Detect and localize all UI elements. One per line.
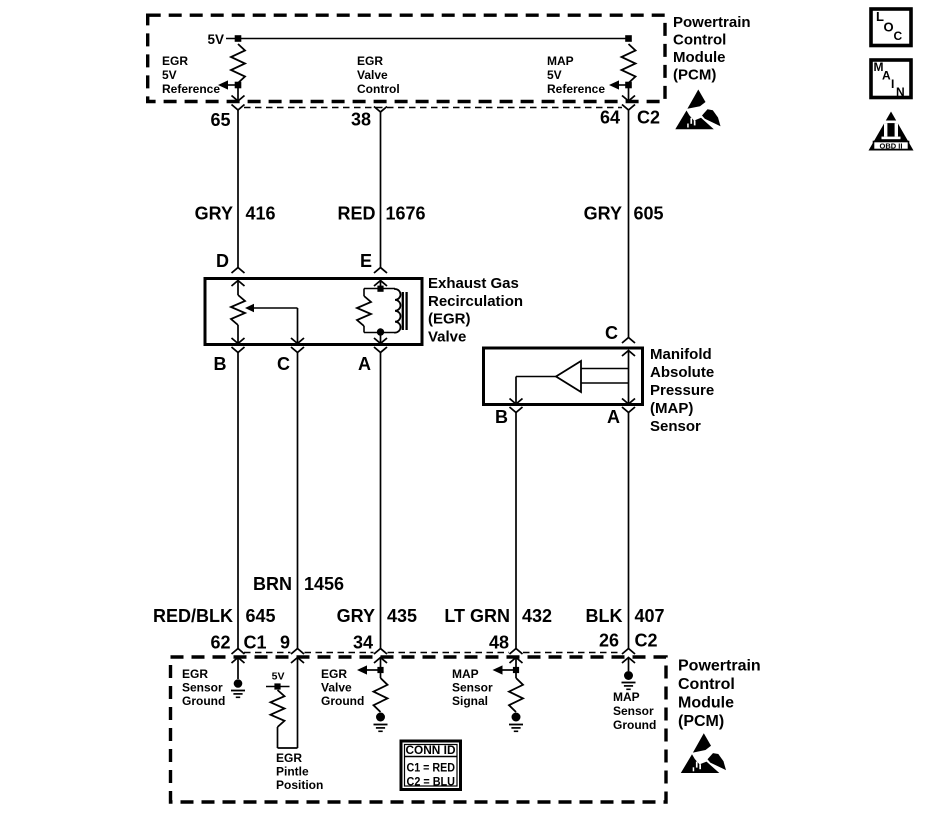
connector arrow pin 48 (inside) xyxy=(510,658,523,664)
svg-text:B: B xyxy=(214,354,227,374)
svg-text:MAP: MAP xyxy=(613,690,640,704)
svg-text:Valve: Valve xyxy=(357,68,388,82)
connector arrow pin 65 xyxy=(232,96,245,102)
svg-text:EGR: EGR xyxy=(357,54,383,68)
svg-text:Ground: Ground xyxy=(182,694,225,708)
wire 5V rail tick xyxy=(266,686,290,688)
svg-text:C: C xyxy=(605,323,618,343)
svg-text:C: C xyxy=(894,29,903,43)
svg-text:Control: Control xyxy=(678,676,735,693)
icon MAIN box xyxy=(871,60,911,98)
icon OBD II triangle xyxy=(869,112,914,151)
svg-text:605: 605 xyxy=(634,204,664,224)
svg-text:Manifold: Manifold xyxy=(650,346,712,363)
svg-text:435: 435 xyxy=(387,606,417,626)
svg-text:Sensor: Sensor xyxy=(452,681,493,695)
resistor MAP 5V reference pull-up xyxy=(622,44,636,83)
resistor MAP sensor signal xyxy=(509,678,523,712)
svg-text:RED: RED xyxy=(337,204,375,224)
svg-text:Control: Control xyxy=(357,82,400,96)
svg-text:EGR: EGR xyxy=(162,54,188,68)
EGR solenoid node (bottom) xyxy=(377,328,384,335)
svg-text:416: 416 xyxy=(246,204,276,224)
connector fork pin 65 xyxy=(232,105,245,111)
connector forks bottom row xyxy=(232,649,245,655)
svg-text:Module: Module xyxy=(673,49,726,66)
svg-text:5V: 5V xyxy=(547,68,562,82)
svg-text:CONN ID: CONN ID xyxy=(406,745,456,757)
node junction pin 34 xyxy=(377,667,383,673)
wire BLK 407 (MAP A to pin 26) xyxy=(628,413,630,649)
svg-text:48: 48 xyxy=(489,633,509,653)
connector arrow pin B inside MAP xyxy=(510,399,523,405)
svg-text:(EGR): (EGR) xyxy=(428,311,471,328)
svg-text:O: O xyxy=(884,20,894,35)
svg-text:9: 9 xyxy=(280,633,290,653)
svg-text:Sensor: Sensor xyxy=(182,681,223,695)
node junction pin 48 xyxy=(513,667,519,673)
connector fork pin B (MAP) xyxy=(510,407,523,413)
wire solenoid bottom xyxy=(364,332,395,334)
svg-text:BRN: BRN xyxy=(253,574,292,594)
svg-text:26: 26 xyxy=(599,631,619,651)
wire amp input bottom xyxy=(581,382,629,384)
svg-text:C1 = RED: C1 = RED xyxy=(407,763,456,775)
svg-text:MAP: MAP xyxy=(547,54,574,68)
resistor EGR solenoid winding resistance xyxy=(357,296,371,326)
svg-text:EGR: EGR xyxy=(276,751,302,765)
svg-text:Position: Position xyxy=(276,778,323,792)
svg-text:Reference: Reference xyxy=(547,82,605,96)
connector arrow pin A (inside) xyxy=(374,338,387,344)
wire arrow branch pin 48 xyxy=(502,669,517,671)
inductor EGR solenoid coil xyxy=(395,289,401,333)
svg-text:(MAP): (MAP) xyxy=(650,400,693,417)
svg-text:Ground: Ground xyxy=(321,694,364,708)
connector arrow pin B (inside) xyxy=(232,338,245,344)
connector arrow pin 62 (inside) xyxy=(232,658,245,664)
svg-text:432: 432 xyxy=(522,606,552,626)
arrow to MAP 5V Reference label xyxy=(609,80,619,89)
node junction below EGR resistor xyxy=(235,82,242,89)
ESD sensitive device symbol (bottom PCM) xyxy=(681,733,726,773)
wire solenoid top xyxy=(364,288,395,290)
ESD sensitive device symbol (top PCM) xyxy=(675,90,720,130)
connector arrow pin C inside MAP xyxy=(622,351,635,357)
ground MAP sensor signal xyxy=(512,713,521,722)
svg-text:Valve: Valve xyxy=(428,329,466,346)
wire amp output to pin B xyxy=(516,376,556,378)
wire RED 1676 (pin 38 to EGR E) xyxy=(380,112,382,268)
node junction 5V/MAP resistor xyxy=(625,35,632,42)
svg-text:1456: 1456 xyxy=(304,574,344,594)
svg-text:Pressure: Pressure xyxy=(650,382,714,399)
connector inline dashed line (bottom) xyxy=(244,652,291,654)
EGR valve box xyxy=(205,279,422,345)
svg-text:I: I xyxy=(891,77,894,91)
svg-text:Reference: Reference xyxy=(162,82,220,96)
svg-text:C1: C1 xyxy=(244,633,267,653)
svg-text:5V: 5V xyxy=(272,671,285,683)
svg-text:Exhaust Gas: Exhaust Gas xyxy=(428,275,519,292)
svg-text:C2: C2 xyxy=(635,631,658,651)
wire LT GRN 432 (MAP B to pin 48) xyxy=(515,413,517,649)
svg-text:Module: Module xyxy=(678,695,734,712)
ground MAP sensor ground xyxy=(624,671,633,680)
node junction pintle pull-up xyxy=(274,683,280,689)
connector arrow pin C (inside) xyxy=(291,338,304,344)
svg-text:C2: C2 xyxy=(637,108,660,128)
PCM (bottom) dashed box xyxy=(171,657,667,802)
svg-text:E: E xyxy=(360,251,372,271)
wire GRY 435 (EGR A to pin 34) xyxy=(380,353,382,649)
svg-text:N: N xyxy=(896,85,905,99)
connector fork pin B xyxy=(232,347,245,353)
svg-text:Powertrain: Powertrain xyxy=(673,14,751,31)
svg-text:Pintle: Pintle xyxy=(276,765,309,779)
svg-text:Valve: Valve xyxy=(321,681,352,695)
svg-text:GRY: GRY xyxy=(337,606,375,626)
svg-text:645: 645 xyxy=(246,606,276,626)
wire wiper to pin C xyxy=(254,307,298,309)
svg-text:(PCM): (PCM) xyxy=(673,67,716,84)
connector arrow pin E (inside) xyxy=(374,281,387,287)
svg-text:A: A xyxy=(882,69,891,83)
svg-text:38: 38 xyxy=(351,110,371,130)
ground EGR valve ground xyxy=(376,713,385,722)
connector arrow pin 34 (inside) xyxy=(374,658,387,664)
arrow to EGR 5V Reference label xyxy=(218,80,228,89)
svg-text:C2 = BLU: C2 = BLU xyxy=(407,777,456,789)
wire MAP internal vertical xyxy=(628,351,630,405)
connector arrow pin D (inside) xyxy=(232,281,245,287)
svg-text:65: 65 xyxy=(210,110,230,130)
svg-text:5V: 5V xyxy=(162,68,177,82)
wire EGR reference branch xyxy=(228,84,238,86)
svg-text:BLK: BLK xyxy=(586,606,623,626)
wire arrow branch pin 34 xyxy=(366,669,381,671)
svg-text:34: 34 xyxy=(353,633,373,653)
svg-text:GRY: GRY xyxy=(195,204,233,224)
connector fork pin D xyxy=(232,268,245,274)
connector fork pin C xyxy=(291,347,304,353)
svg-text:OBD II: OBD II xyxy=(880,141,903,150)
arrow EGR valve ground sense xyxy=(357,665,367,674)
connector C2 inline dashed line (top) xyxy=(244,107,622,109)
svg-text:D: D xyxy=(216,251,229,271)
wire pin 65 internal xyxy=(237,85,239,101)
connector fork pin A (MAP) xyxy=(622,407,635,413)
connector fork pin 64 xyxy=(622,105,635,111)
svg-text:RED/BLK: RED/BLK xyxy=(153,606,233,626)
svg-text:Recirculation: Recirculation xyxy=(428,293,523,310)
wire 5V bus xyxy=(226,38,629,40)
svg-text:Powertrain: Powertrain xyxy=(678,658,761,675)
node junction 5V/EGR resistor xyxy=(235,35,242,42)
solenoid core bars xyxy=(402,292,404,330)
connector arrow pin 9 (inside) xyxy=(291,658,304,664)
svg-text:407: 407 xyxy=(635,606,665,626)
wire amp input top xyxy=(581,368,629,370)
connector arrow pin 64 xyxy=(622,96,635,102)
svg-text:EGR: EGR xyxy=(182,667,208,681)
wire pin 64 internal xyxy=(628,85,630,101)
svg-text:LT GRN: LT GRN xyxy=(444,606,510,626)
ground EGR sensor ground xyxy=(234,679,243,688)
MAP sensor box xyxy=(484,348,643,405)
connector fork pin A xyxy=(374,347,387,353)
svg-text:B: B xyxy=(495,407,508,427)
icon LOC box xyxy=(871,9,911,46)
wire RED/BLK 645 (EGR B to pin 62) xyxy=(237,353,239,649)
op-amp MAP transducer amplifier xyxy=(556,361,581,392)
potentiometer wiper arrow xyxy=(245,304,254,312)
svg-text:Signal: Signal xyxy=(452,694,488,708)
svg-text:Sensor: Sensor xyxy=(650,418,701,435)
wire BRN 1456 (EGR C to pin 9) xyxy=(297,353,299,649)
svg-text:MAP: MAP xyxy=(452,667,479,681)
svg-text:5V: 5V xyxy=(207,32,224,47)
svg-text:Control: Control xyxy=(673,32,726,49)
resistor EGR valve ground xyxy=(374,678,388,712)
connector fork pin E xyxy=(374,268,387,274)
connector arrow pin A inside MAP xyxy=(622,399,635,405)
arrow MAP sensor signal sense xyxy=(493,665,503,674)
svg-text:64: 64 xyxy=(600,108,620,128)
svg-text:C: C xyxy=(277,354,290,374)
connector fork pin 38 xyxy=(374,107,387,113)
resistor EGR pintle position pull-up xyxy=(271,690,285,727)
PCM (top) dashed box xyxy=(148,15,665,101)
wire pintle bottom bus xyxy=(278,747,298,749)
EGR solenoid node (top) xyxy=(377,286,383,292)
svg-text:62: 62 xyxy=(210,633,230,653)
svg-text:A: A xyxy=(358,354,371,374)
svg-text:A: A xyxy=(607,407,620,427)
svg-text:GRY: GRY xyxy=(584,204,622,224)
node junction below MAP resistor xyxy=(625,82,632,89)
svg-text:1676: 1676 xyxy=(386,204,426,224)
svg-text:Sensor: Sensor xyxy=(613,704,654,718)
svg-text:(PCM): (PCM) xyxy=(678,713,724,730)
svg-text:Ground: Ground xyxy=(613,718,656,732)
svg-text:Absolute: Absolute xyxy=(650,364,714,381)
wire MAP reference branch xyxy=(619,84,629,86)
connector fork pin C (MAP) xyxy=(622,338,635,344)
connector arrow pin 26 (inside) xyxy=(622,658,635,664)
svg-text:EGR: EGR xyxy=(321,667,347,681)
wire GRY 416 (pin 65 to EGR D) xyxy=(237,110,239,268)
resistor EGR 5V reference pull-up xyxy=(231,44,245,83)
CONN ID table xyxy=(401,741,461,790)
wire GRY 605 (pin 64 to MAP C) xyxy=(628,110,630,338)
potentiometer EGR pintle position sensor xyxy=(231,295,245,325)
